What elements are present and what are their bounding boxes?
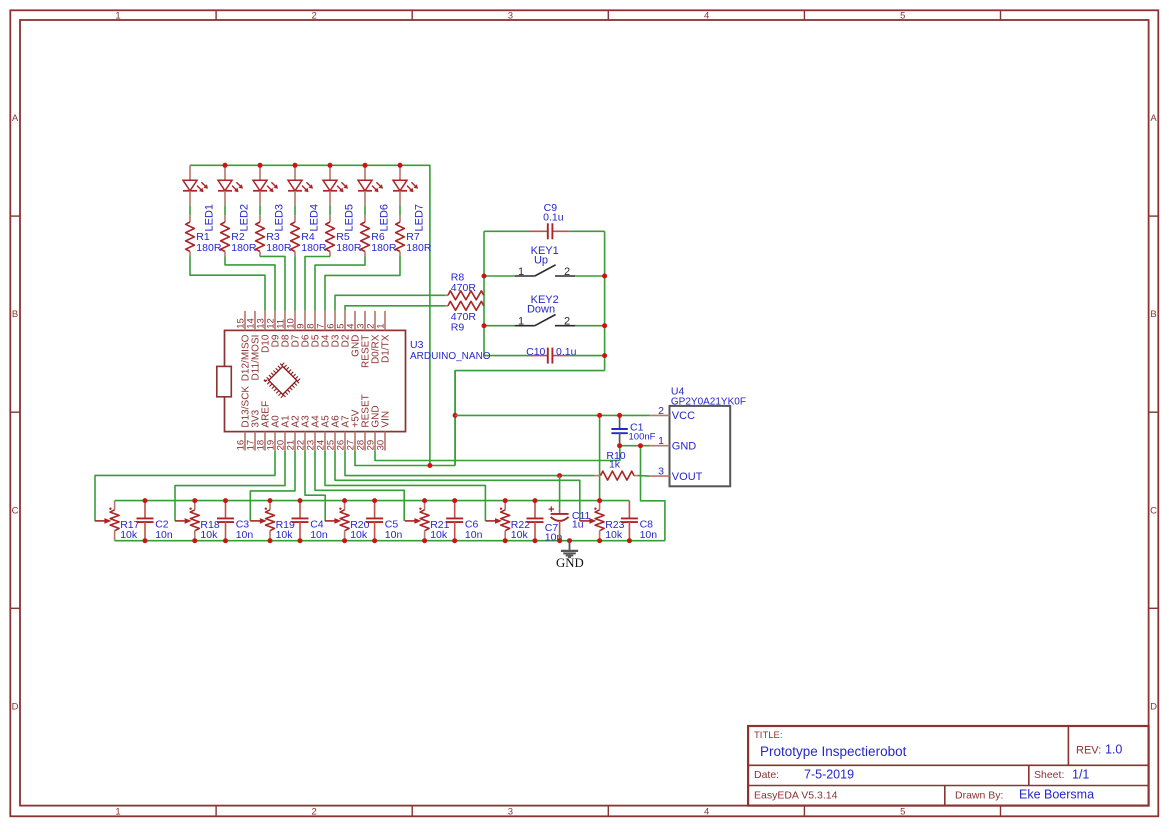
resistor R1 xyxy=(186,215,195,256)
svg-text:LED4: LED4 xyxy=(309,204,321,232)
U3 pin 13 xyxy=(264,311,266,331)
svg-text:180R: 180R xyxy=(266,242,292,254)
svg-text:2: 2 xyxy=(312,10,317,21)
potentiometer R17 xyxy=(95,501,119,541)
wire +5V up to VCC branch xyxy=(454,371,456,466)
wire resistor to U3 pin xyxy=(315,257,365,311)
U3 pin 27 xyxy=(354,432,356,451)
wire U3 pin to pot wiper bus xyxy=(250,451,295,521)
U3 pin 12 xyxy=(274,311,276,331)
wire D3 to R8 xyxy=(335,295,446,311)
capacitor C8 xyxy=(621,501,638,541)
wire KEY2 left xyxy=(484,325,515,327)
wire resistor to U3 pin xyxy=(305,257,330,311)
capacitor C7 xyxy=(527,501,544,541)
U3 pin 29 xyxy=(374,432,376,451)
svg-text:LED6: LED6 xyxy=(379,204,391,232)
wire A7 to R10 xyxy=(345,451,595,476)
resistor R5 xyxy=(326,215,335,256)
junction dots U4 area xyxy=(597,413,602,418)
junction dots keys xyxy=(482,274,487,279)
U3 pin 20 xyxy=(284,432,286,451)
U3 pin 7 xyxy=(324,311,326,331)
svg-text:R9: R9 xyxy=(451,321,465,333)
U3 pin 30 xyxy=(384,432,386,451)
junction dots LED rail xyxy=(223,163,228,168)
svg-text:Up: Up xyxy=(534,255,548,267)
U3 chip diamond glyph xyxy=(266,364,300,398)
junction dot +5V LED rail xyxy=(427,463,432,468)
title block xyxy=(748,726,1149,806)
potentiometer R20 xyxy=(325,501,349,541)
wire C9 left xyxy=(484,230,530,232)
wire LED1 cathode to R1 xyxy=(189,205,191,215)
svg-text:GP2Y0A21YK0F: GP2Y0A21YK0F xyxy=(671,397,746,408)
potentiometer R23 xyxy=(580,501,604,541)
wire R10 to VOUT xyxy=(638,475,650,478)
svg-text:10k: 10k xyxy=(430,529,448,541)
svg-text:180R: 180R xyxy=(301,242,327,254)
wire LED7 cathode to R7 xyxy=(399,205,401,215)
wire U3 pin to pot wiper bus xyxy=(315,451,404,521)
resistor R10 xyxy=(595,471,638,480)
svg-text:180R: 180R xyxy=(336,242,362,254)
U3 pin 15 xyxy=(244,311,246,331)
resistor R9 xyxy=(446,301,484,310)
LED3 xyxy=(253,165,278,205)
capacitor C9 xyxy=(530,223,570,239)
svg-text:A: A xyxy=(12,113,19,124)
wire KEY1 right xyxy=(575,275,604,277)
wire LED4 cathode to R4 xyxy=(294,205,296,215)
U3 pin 11 xyxy=(284,311,286,331)
capacitor C2 xyxy=(137,501,154,541)
svg-text:10k: 10k xyxy=(200,529,218,541)
U3 pin 18 xyxy=(264,432,266,451)
U3 pin 8 xyxy=(314,311,316,331)
U4 pin 2 xyxy=(650,414,670,416)
svg-text:10n: 10n xyxy=(640,529,658,541)
wire KEY2 right xyxy=(575,325,604,327)
U3 pin 5 xyxy=(344,311,346,331)
U3 pin 19 xyxy=(274,432,276,451)
potentiometer R19 xyxy=(250,501,274,541)
wire D2 to R9 xyxy=(345,306,446,311)
U3 pin 24 xyxy=(324,432,326,451)
wire LED3 cathode to R3 xyxy=(259,205,261,215)
svg-text:10n: 10n xyxy=(465,529,483,541)
U4 pin 3 xyxy=(650,475,670,477)
svg-text:10k: 10k xyxy=(605,529,623,541)
svg-text:U3: U3 xyxy=(410,339,424,351)
svg-text:LED5: LED5 xyxy=(344,204,356,232)
U3 pin 16 xyxy=(244,432,246,451)
wire resistor to U3 pin xyxy=(325,257,400,311)
polarized capacitor C11 xyxy=(549,476,569,541)
svg-text:U4: U4 xyxy=(671,385,685,397)
wire +5V drop to pot rail xyxy=(599,415,601,500)
svg-text:4: 4 xyxy=(704,10,709,21)
svg-text:1: 1 xyxy=(658,435,664,447)
U3 pin 26 xyxy=(344,432,346,451)
wire C10 right xyxy=(570,355,605,357)
svg-text:180R: 180R xyxy=(231,242,257,254)
wire U3 pin to pot wiper bus xyxy=(335,451,580,521)
wire GND row to U4 xyxy=(620,445,650,447)
svg-text:10n: 10n xyxy=(385,529,403,541)
U3 pin 14 xyxy=(254,311,256,331)
svg-text:10k: 10k xyxy=(511,529,529,541)
capacitor C1 xyxy=(611,415,627,445)
wire U3 pin to pot wiper bus xyxy=(305,451,325,521)
switch KEY1 xyxy=(515,265,576,276)
svg-text:1: 1 xyxy=(115,806,120,817)
svg-text:D1/TX: D1/TX xyxy=(381,334,392,363)
svg-text:10k: 10k xyxy=(120,529,138,541)
svg-text:10k: 10k xyxy=(350,529,368,541)
junction dot VCC branch xyxy=(453,413,458,418)
wire VCC xyxy=(455,414,650,416)
svg-text:Date:: Date: xyxy=(754,769,779,781)
wire resistor to U3 pin xyxy=(260,256,285,311)
resistor R2 xyxy=(221,215,230,256)
wire resistor to U3 pin xyxy=(294,257,296,311)
wire pot top rail +5V xyxy=(115,500,630,502)
svg-text:Eke Boersma: Eke Boersma xyxy=(1019,788,1094,802)
U3 pin 23 xyxy=(314,432,316,451)
svg-text:10k: 10k xyxy=(276,529,294,541)
svg-text:180R: 180R xyxy=(406,242,432,254)
U3 pin 2 xyxy=(374,311,376,331)
svg-text:A: A xyxy=(1150,113,1157,124)
svg-text:C: C xyxy=(12,505,19,516)
svg-text:REV:: REV: xyxy=(1076,745,1101,757)
U3 pin 10 xyxy=(294,311,296,331)
svg-text:VOUT: VOUT xyxy=(672,471,703,483)
wire GND from pin 29 xyxy=(375,446,620,461)
wire bottom GND rail xyxy=(115,540,665,542)
U3 pin 9 xyxy=(304,311,306,331)
svg-text:Prototype Inspectierobot: Prototype Inspectierobot xyxy=(760,744,907,759)
svg-text:LED1: LED1 xyxy=(204,204,216,232)
U3 pin 6 xyxy=(334,311,336,331)
svg-text:10n: 10n xyxy=(310,529,328,541)
U3 pin 22 xyxy=(304,432,306,451)
svg-text:VIN: VIN xyxy=(381,411,392,428)
svg-text:10n: 10n xyxy=(236,529,254,541)
ground symbol xyxy=(561,541,578,558)
svg-text:5: 5 xyxy=(900,806,905,817)
svg-text:B: B xyxy=(1150,309,1156,320)
potentiometer R18 xyxy=(175,501,199,541)
svg-text:B: B xyxy=(12,309,18,320)
svg-text:2: 2 xyxy=(312,806,317,817)
svg-text:1.0: 1.0 xyxy=(1105,743,1122,757)
svg-text:30: 30 xyxy=(376,440,387,451)
svg-text:180R: 180R xyxy=(196,242,222,254)
LED2 xyxy=(218,165,243,205)
wire resistor to U3 pin xyxy=(190,257,265,311)
wire C9 right xyxy=(570,230,605,232)
svg-text:1/1: 1/1 xyxy=(1072,768,1089,782)
resistor R8 xyxy=(446,291,484,300)
resistor R7 xyxy=(396,215,405,256)
svg-text:LED3: LED3 xyxy=(274,204,286,232)
wire resistor to U3 pin xyxy=(225,257,275,311)
svg-text:EasyEDA V5.3.14: EasyEDA V5.3.14 xyxy=(754,790,838,802)
U4 body xyxy=(670,406,731,486)
svg-text:180R: 180R xyxy=(371,242,397,254)
wire U3 pin to pot wiper bus xyxy=(175,451,285,521)
U3 pin 21 xyxy=(294,432,296,451)
svg-text:2: 2 xyxy=(564,266,570,278)
wire U3 pin to pot wiper bus xyxy=(95,451,275,521)
svg-text:5: 5 xyxy=(900,10,905,21)
LED4 xyxy=(288,165,313,205)
U3 USB connector rect xyxy=(217,366,232,396)
wire U3 pin to pot wiper bus xyxy=(325,451,485,521)
U3 pin 3 xyxy=(364,311,366,331)
wire keys bottom to +5V xyxy=(455,371,604,466)
capacitor C5 xyxy=(366,501,383,541)
svg-text:LED2: LED2 xyxy=(239,204,251,232)
wire +5V from pin 27 xyxy=(355,451,455,466)
capacitor C6 xyxy=(446,501,463,541)
svg-text:Sheet:: Sheet: xyxy=(1034,769,1064,781)
junction dots top rail xyxy=(143,498,148,503)
resistor R6 xyxy=(361,215,370,256)
resistor R4 xyxy=(291,215,300,256)
svg-text:3: 3 xyxy=(508,806,513,817)
wire LED2 cathode to R2 xyxy=(224,205,226,215)
svg-text:1u: 1u xyxy=(572,519,584,531)
svg-text:1: 1 xyxy=(518,316,524,328)
svg-text:GND: GND xyxy=(672,441,697,453)
svg-text:D: D xyxy=(1150,702,1157,713)
svg-text:1: 1 xyxy=(518,266,524,278)
U3 pin 25 xyxy=(334,432,336,451)
svg-text:LED7: LED7 xyxy=(414,204,426,232)
junction dots bottom rail xyxy=(143,538,148,543)
resistor R3 xyxy=(256,215,265,256)
svg-text:C: C xyxy=(1150,505,1157,516)
capacitor C3 xyxy=(217,501,234,541)
wire KEY1 left xyxy=(484,275,515,277)
U4 pin 1 xyxy=(650,445,670,447)
LED1 xyxy=(183,165,208,205)
LED7 xyxy=(393,165,418,205)
svg-text:GND: GND xyxy=(556,556,584,570)
svg-text:TITLE:: TITLE: xyxy=(754,730,783,741)
svg-text:Drawn By:: Drawn By: xyxy=(955,790,1003,802)
potentiometer R22 xyxy=(485,501,509,541)
junction dot R10 C11 node xyxy=(557,473,562,478)
svg-text:7-5-2019: 7-5-2019 xyxy=(804,768,854,782)
wire U4 GND down to bottom rail xyxy=(641,446,665,541)
U3 pin 28 xyxy=(364,432,366,451)
svg-text:Down: Down xyxy=(527,304,555,316)
U3 pin 17 xyxy=(254,432,256,451)
svg-text:1: 1 xyxy=(376,324,387,329)
potentiometer R21 xyxy=(405,501,429,541)
svg-text:D: D xyxy=(12,702,19,713)
U3 pin 4 xyxy=(354,311,356,331)
svg-text:3: 3 xyxy=(508,10,513,21)
svg-text:100nF: 100nF xyxy=(629,432,656,443)
wire LED5 cathode to R5 xyxy=(329,205,331,215)
U3 body xyxy=(225,330,406,431)
svg-text:1k: 1k xyxy=(609,459,621,471)
svg-text:ARDUINO_NANO: ARDUINO_NANO xyxy=(410,351,491,362)
wire LED anode rail +5V xyxy=(190,165,430,465)
LED5 xyxy=(323,165,348,205)
svg-text:1: 1 xyxy=(115,10,120,21)
svg-text:10n: 10n xyxy=(155,529,173,541)
svg-text:2: 2 xyxy=(564,316,570,328)
svg-text:2: 2 xyxy=(658,405,664,417)
wire LED6 cathode to R6 xyxy=(364,205,366,215)
svg-text:3: 3 xyxy=(658,466,664,478)
wire keys left vertical xyxy=(483,231,485,355)
capacitor C4 xyxy=(292,501,309,541)
switch KEY2 xyxy=(515,315,576,326)
LED6 xyxy=(358,165,383,205)
svg-text:4: 4 xyxy=(704,806,709,817)
svg-text:470R: 470R xyxy=(451,282,477,294)
wire C10 left xyxy=(484,355,530,357)
svg-text:VCC: VCC xyxy=(672,410,695,422)
capacitor C10 xyxy=(530,348,570,364)
wire keys right vertical xyxy=(604,231,606,370)
U3 pin 1 xyxy=(384,311,386,331)
svg-text:0.1u: 0.1u xyxy=(543,212,564,224)
